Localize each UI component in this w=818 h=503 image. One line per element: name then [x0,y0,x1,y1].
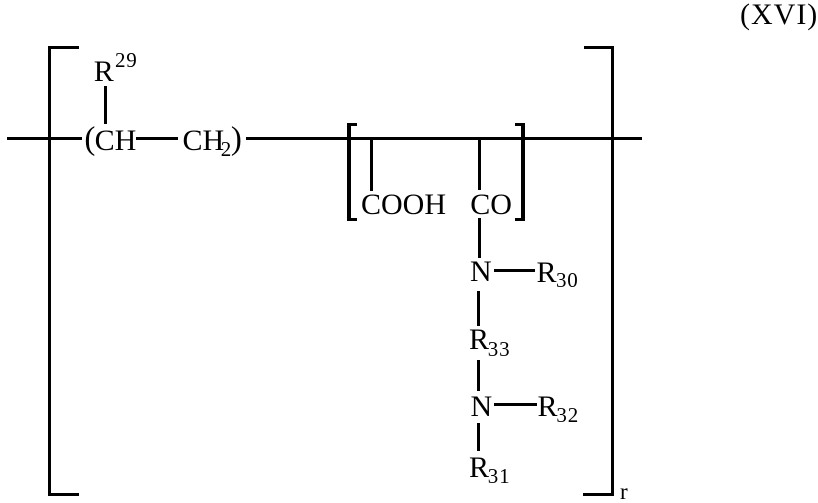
bond N to R32 [494,403,537,406]
main chain wire right segment [246,137,642,140]
group R32 [538,392,558,422]
bond R29 to CH [104,86,107,124]
outer left bracket [48,46,51,496]
atom N (first) [470,257,492,287]
outer right bracket [611,46,614,496]
group (CH [84,123,95,156]
atom N (second) [471,392,493,422]
group R30 [537,258,557,288]
main chain wire left segment [7,137,82,140]
bond CO to N [478,218,481,258]
group R33 [469,325,489,355]
group R31 [469,453,489,483]
group CO [470,190,512,220]
bond CH to CH2 [136,137,178,140]
bond main chain to CO [478,139,481,190]
group COOH [361,190,446,220]
inner left bracket [347,123,351,221]
group CH2) [183,126,225,156]
bond R33 to N [477,360,480,391]
group R29 [94,57,114,87]
bond N to R33 [477,291,480,326]
formula label (XVI) [740,0,818,30]
inner right bracket [521,123,525,221]
subscript r (repeat index) [620,480,628,503]
bond N to R30 [494,269,535,272]
bond main chain to COOH [370,139,373,191]
bond N to R31 [477,423,480,451]
